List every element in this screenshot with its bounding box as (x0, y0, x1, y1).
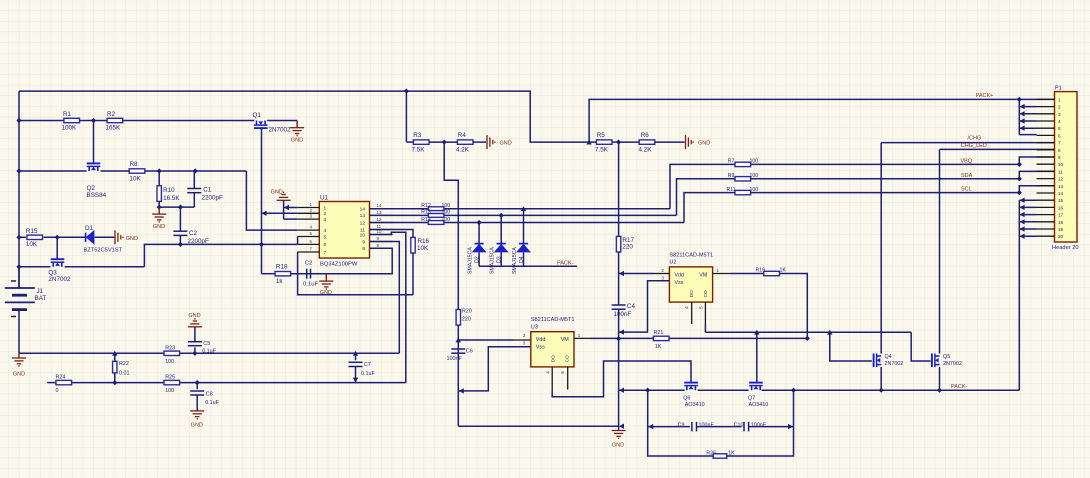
resistor R12 (421, 203, 450, 211)
wire VBQ row (750, 157, 1054, 167)
wire R10 bottom row (157, 205, 195, 210)
svg-text:3: 3 (523, 341, 526, 346)
wire PACK- rail (619, 384, 1020, 393)
svg-text:7: 7 (1058, 141, 1061, 146)
svg-text:CO: CO (565, 355, 570, 362)
svg-text:C9: C9 (678, 422, 685, 428)
svg-text:100K: 100K (62, 124, 78, 131)
svg-text:SMAJ15CA: SMAJ15CA (512, 247, 518, 274)
ground below C8 (190, 411, 204, 429)
svg-text:/CHG: /CHG (968, 136, 982, 142)
resistor R24 (56, 375, 72, 395)
svg-text:R15: R15 (26, 228, 38, 235)
svg-text:R8: R8 (130, 161, 139, 168)
wire U2 Vss return (619, 281, 670, 332)
svg-text:9: 9 (1058, 155, 1061, 160)
ground at R4 (487, 135, 512, 149)
svg-text:GND: GND (13, 372, 25, 378)
svg-text:U1: U1 (320, 194, 329, 201)
svg-text:C4: C4 (627, 303, 636, 310)
wire CHG row (881, 136, 1054, 143)
svg-text:Vss: Vss (674, 280, 683, 286)
transistor Q3 (48, 259, 71, 283)
wire U1 pin9 drop (370, 242, 400, 354)
svg-text:D2: D2 (475, 256, 481, 263)
resistor R22 (113, 353, 130, 382)
svg-text:220: 220 (462, 316, 471, 322)
svg-text:R6: R6 (641, 132, 650, 139)
svg-text:4: 4 (545, 371, 550, 374)
ground at R6 (686, 135, 711, 149)
svg-text:Q5: Q5 (943, 354, 950, 360)
svg-text:12: 12 (360, 220, 366, 226)
svg-text:165K: 165K (106, 124, 122, 131)
svg-text:R3: R3 (413, 132, 422, 139)
svg-text:0.1uF: 0.1uF (303, 281, 318, 287)
op-amp U3 S8211CAD-M5T1 (488, 317, 591, 391)
svg-text:6: 6 (1058, 133, 1061, 138)
svg-text:GND: GND (188, 313, 200, 319)
resistor R1 (62, 111, 80, 131)
svg-text:15: 15 (1058, 198, 1064, 203)
resistor R6 (639, 132, 655, 153)
svg-text:C7: C7 (364, 362, 371, 368)
svg-text:Q4: Q4 (885, 354, 892, 360)
resistor R9 (728, 173, 758, 181)
svg-text:0.01: 0.01 (119, 371, 130, 377)
capacitor C10 (697, 422, 794, 432)
resistor R7 (728, 159, 758, 167)
wire BAT+ left vertical (18, 91, 20, 288)
svg-text:12: 12 (377, 217, 382, 222)
svg-text:13: 13 (1058, 184, 1064, 189)
svg-text:0: 0 (56, 388, 59, 394)
svg-text:2: 2 (1058, 105, 1061, 110)
svg-text:Q1: Q1 (253, 112, 262, 119)
svg-text:14: 14 (377, 203, 382, 208)
svg-text:100: 100 (750, 187, 759, 193)
svg-text:2N7002: 2N7002 (48, 276, 71, 283)
op-amp U2 S8211CAD-M5T1 (648, 252, 731, 324)
svg-text:GND: GND (612, 443, 624, 449)
wire Q3 gate (56, 237, 58, 259)
svg-text:R20: R20 (462, 309, 472, 315)
svg-text:R2: R2 (107, 111, 116, 118)
svg-text:SMAJ15CA: SMAJ15CA (468, 247, 474, 274)
svg-text:13: 13 (377, 210, 382, 215)
svg-text:13: 13 (360, 213, 366, 219)
wire U1 pin5 jog (297, 237, 299, 245)
svg-text:R12: R12 (421, 203, 431, 209)
capacitor C3 (291, 260, 327, 287)
wire R3 feed (404, 89, 486, 145)
svg-text:100: 100 (442, 217, 451, 223)
wire U1 pin8 net (291, 248, 393, 273)
svg-text:100: 100 (165, 359, 174, 365)
wire R17 vertical (618, 142, 620, 236)
resistor R14 (421, 217, 450, 225)
svg-text:AO3410: AO3410 (685, 402, 705, 408)
wire Q3 row (16, 242, 297, 270)
transistor Q1 (253, 112, 292, 134)
svg-text:2: 2 (661, 268, 664, 273)
svg-text:14: 14 (360, 207, 366, 213)
svg-text:4: 4 (684, 306, 689, 309)
wire R5 row (589, 140, 684, 145)
svg-text:20: 20 (1058, 234, 1064, 239)
svg-text:BQ34Z100PW: BQ34Z100PW (320, 262, 358, 268)
resistor R2 (106, 111, 123, 131)
svg-text:CHG_LED: CHG_LED (961, 143, 987, 149)
wire PACK+ bus at header (1017, 97, 1037, 135)
wire C6 gnd row (458, 425, 618, 427)
wire R20 bottom (457, 325, 459, 426)
svg-text:Q6: Q6 (683, 395, 690, 401)
wire cell rail top (19, 351, 399, 356)
svg-text:5: 5 (698, 306, 703, 309)
svg-text:10: 10 (1058, 162, 1064, 167)
resistor R26 (706, 451, 735, 459)
svg-text:5: 5 (1058, 126, 1061, 131)
svg-text:5: 5 (324, 234, 327, 240)
svg-text:GND: GND (271, 190, 283, 196)
wire U3 Vss return (458, 347, 531, 394)
wire U1 pin7 drop (298, 252, 413, 295)
resistor R5 (595, 132, 612, 153)
svg-text:BZT52C5V1ST: BZT52C5V1ST (84, 248, 123, 254)
svg-text:7.5K: 7.5K (412, 147, 426, 154)
capacitor C4 (612, 303, 636, 318)
svg-text:18: 18 (1058, 220, 1064, 225)
wire pin12 row (370, 193, 736, 226)
svg-text:5: 5 (560, 371, 565, 374)
svg-text:R22: R22 (119, 361, 129, 367)
wire CHG_LED row (940, 143, 1055, 150)
svg-text:17: 17 (1058, 213, 1064, 218)
resistor R20 (456, 309, 472, 326)
capacitor C5 (188, 327, 217, 355)
svg-text:1k: 1k (276, 278, 284, 285)
svg-text:C10: C10 (734, 422, 744, 428)
resistor R8 (129, 161, 145, 183)
svg-text:R25: R25 (165, 375, 175, 381)
wire U2 Vdd net (619, 252, 654, 305)
svg-text:R23: R23 (165, 345, 175, 351)
battery J1 (5, 267, 47, 354)
capacitor C9 (648, 422, 715, 432)
capacitor C8 (190, 383, 219, 411)
svg-text:C2: C2 (189, 230, 198, 237)
svg-text:PACK-: PACK- (951, 384, 968, 390)
svg-text:D3: D3 (497, 256, 503, 263)
wire PACK- bus at header (1019, 198, 1036, 391)
connector P1 Header 20 (1037, 85, 1079, 251)
svg-text:19: 19 (1058, 227, 1064, 232)
diode D4 (512, 209, 531, 274)
svg-text:9: 9 (362, 239, 365, 245)
svg-text:GND: GND (698, 141, 710, 147)
svg-text:Q7: Q7 (748, 395, 755, 401)
capacitor C2 (173, 207, 209, 245)
svg-text:100nF: 100nF (699, 422, 715, 428)
wire pin13 row (370, 179, 736, 218)
svg-text:VBQ: VBQ (961, 159, 973, 165)
wire R21 right (669, 337, 807, 339)
svg-text:VM: VM (561, 337, 570, 343)
svg-text:10: 10 (360, 232, 366, 238)
svg-text:100: 100 (442, 210, 451, 216)
svg-text:GND: GND (320, 290, 332, 296)
diode D1 (84, 225, 123, 254)
svg-text:1: 1 (1058, 97, 1061, 102)
wire U1 pin11 to R16 (370, 230, 414, 238)
svg-text:100: 100 (750, 173, 759, 179)
svg-text:PACK+: PACK+ (976, 93, 994, 99)
svg-text:GND: GND (291, 138, 303, 144)
wire bottom loop (648, 390, 794, 456)
svg-text:SMAJ15CA: SMAJ15CA (490, 247, 496, 274)
svg-text:16.5K: 16.5K (163, 195, 180, 202)
svg-text:AO3410: AO3410 (749, 402, 769, 408)
wire PACK- diode rail (479, 260, 577, 266)
svg-text:R21: R21 (654, 330, 664, 336)
wire R1 row (16, 118, 297, 123)
transistor Q4 (874, 143, 904, 391)
transistor Q2 (87, 163, 107, 198)
svg-text:R5: R5 (597, 132, 606, 139)
resistor R3 (412, 132, 430, 153)
wire Q2 row (16, 168, 297, 230)
svg-text:C2: C2 (305, 260, 313, 266)
svg-text:1K: 1K (728, 451, 735, 457)
resistor R4 (456, 132, 473, 153)
wire R16 bottom (412, 253, 414, 295)
svg-text:10K: 10K (130, 176, 142, 183)
wire Q2 gate (93, 121, 95, 164)
svg-text:2N7002: 2N7002 (269, 127, 292, 134)
label PACK+ (976, 93, 994, 99)
wire U3 VM row (591, 337, 654, 339)
resistor R10 (157, 171, 180, 207)
svg-text:2N7002: 2N7002 (943, 361, 962, 367)
svg-text:PACK-: PACK- (557, 260, 574, 266)
wire U1 pin2 row (262, 211, 298, 216)
ground at battery (12, 353, 26, 377)
wire header nets (0, 0, 1, 1)
svg-text:4: 4 (1058, 119, 1061, 124)
resistor R16 (411, 237, 430, 253)
resistor R18 (275, 263, 291, 285)
svg-text:100: 100 (750, 159, 759, 165)
svg-text:12: 12 (1058, 177, 1064, 182)
svg-text:CO: CO (703, 290, 708, 297)
svg-text:R10: R10 (163, 187, 175, 194)
resistor R23 (164, 345, 180, 365)
capacitor C6 (447, 348, 473, 362)
wire Q1 gate net (262, 128, 276, 274)
svg-text:R9: R9 (728, 173, 735, 179)
wire SDA row (750, 171, 1054, 181)
svg-text:GND: GND (126, 236, 138, 242)
resistor R15 (26, 228, 43, 248)
svg-text:8: 8 (362, 246, 365, 252)
svg-text:C6: C6 (466, 348, 473, 354)
svg-text:P1: P1 (1055, 85, 1062, 91)
ground at D1 (95, 230, 138, 244)
svg-text:10K: 10K (417, 245, 429, 252)
resistor R19 (756, 268, 787, 276)
svg-text:100: 100 (165, 388, 174, 394)
resistor R13 (421, 210, 450, 218)
svg-text:11: 11 (1058, 169, 1063, 174)
svg-text:220: 220 (622, 244, 633, 251)
wire U3 DO net (552, 361, 691, 397)
svg-text:U3: U3 (531, 324, 538, 330)
svg-text:C8: C8 (206, 392, 213, 398)
wire cell rail bottom (47, 380, 406, 385)
svg-text:1: 1 (716, 268, 719, 273)
svg-text:SCL: SCL (961, 187, 972, 193)
transistor Q7 (748, 383, 768, 408)
svg-text:100nF: 100nF (614, 311, 632, 318)
svg-text:D1: D1 (85, 225, 94, 232)
svg-text:SDA: SDA (961, 173, 973, 179)
wire pin14 row (370, 164, 736, 211)
capacitor C7 (349, 353, 376, 382)
diode D3 (490, 215, 509, 274)
svg-text:100nF: 100nF (447, 356, 463, 362)
svg-text:BSS84: BSS84 (87, 192, 107, 199)
svg-text:GND: GND (153, 224, 165, 230)
svg-text:8: 8 (1058, 148, 1061, 153)
svg-text:U2: U2 (669, 260, 676, 266)
transistor Q6 (683, 383, 704, 408)
op-amp U1 BQ34Z100PW (297, 194, 392, 267)
svg-text:1: 1 (324, 205, 327, 211)
svg-text:2: 2 (324, 211, 327, 217)
wire U1 pin10 drop (370, 232, 406, 382)
svg-text:Vdd: Vdd (536, 337, 546, 343)
svg-text:Header 20: Header 20 (1052, 245, 1079, 251)
svg-text:2200pF: 2200pF (202, 195, 224, 202)
svg-text:4: 4 (324, 228, 327, 234)
svg-text:R26: R26 (706, 451, 716, 457)
svg-text:4.2K: 4.2K (456, 147, 470, 154)
svg-text:BAT: BAT (35, 295, 47, 302)
svg-text:6: 6 (324, 242, 327, 248)
svg-text:0.1uF: 0.1uF (202, 348, 216, 354)
svg-text:10K: 10K (26, 241, 38, 248)
svg-text:S8211CAD-M5T1: S8211CAD-M5T1 (669, 252, 713, 258)
ground at C3 (319, 274, 392, 297)
svg-text:7: 7 (324, 250, 327, 256)
wire PACK+ top rail (19, 91, 1055, 144)
svg-text:3: 3 (324, 217, 327, 223)
svg-text:GND: GND (191, 423, 203, 429)
svg-text:7.5K: 7.5K (595, 147, 609, 154)
resistor R21 (653, 330, 669, 350)
svg-text:R11: R11 (727, 187, 736, 193)
svg-text:C5: C5 (203, 341, 210, 347)
ground below R10 (152, 207, 166, 230)
svg-text:R13: R13 (421, 210, 431, 216)
svg-text:3: 3 (661, 276, 664, 281)
svg-text:14: 14 (1058, 191, 1064, 196)
svg-text:VM: VM (699, 272, 708, 278)
wire R15 row (16, 235, 85, 240)
svg-text:R1: R1 (63, 111, 72, 118)
ground at Q1 source (290, 121, 304, 144)
svg-text:GND: GND (500, 141, 512, 147)
svg-text:R4: R4 (458, 132, 467, 139)
svg-text:100: 100 (442, 203, 451, 209)
svg-text:1K: 1K (655, 344, 662, 350)
ground above C5 (188, 313, 202, 327)
wire GND vertical (616, 309, 624, 430)
svg-text:S8211CAD-M5T1: S8211CAD-M5T1 (531, 317, 575, 323)
svg-text:16: 16 (1058, 205, 1064, 210)
svg-text:2N7002: 2N7002 (885, 361, 904, 367)
transistor Q5 (932, 149, 962, 390)
svg-text:1: 1 (578, 333, 581, 338)
svg-text:2: 2 (523, 333, 526, 338)
wire U2 VM to R19 (730, 273, 764, 275)
svg-text:C1: C1 (203, 187, 212, 194)
wire SCL row (750, 186, 1054, 195)
resistor R17 (616, 236, 634, 252)
wire U2 CO net (705, 324, 930, 382)
svg-text:Vdd: Vdd (674, 272, 684, 278)
diode D2 (468, 223, 487, 275)
svg-text:R7: R7 (728, 159, 735, 165)
ground main (612, 431, 626, 449)
svg-text:DO: DO (550, 355, 555, 362)
wire R19 drop (779, 274, 810, 342)
resistor R11 (727, 187, 759, 195)
ground above U1 (271, 190, 298, 220)
svg-text:D4: D4 (519, 256, 525, 263)
svg-text:0.1uF: 0.1uF (205, 400, 219, 406)
svg-text:4.2K: 4.2K (639, 147, 653, 154)
svg-text:Vss: Vss (536, 345, 545, 351)
resistor R25 (164, 375, 180, 395)
svg-text:DO: DO (689, 290, 694, 297)
svg-text:R14: R14 (421, 217, 431, 223)
svg-text:R19: R19 (756, 268, 766, 274)
wire R3 junction drop (444, 142, 458, 309)
svg-text:R18: R18 (276, 263, 288, 270)
svg-text:0.1uF: 0.1uF (361, 371, 375, 377)
svg-text:100nF: 100nF (751, 422, 767, 428)
capacitor C1 (187, 171, 223, 207)
svg-text:R24: R24 (56, 375, 66, 381)
svg-text:3: 3 (1058, 112, 1061, 117)
wire U3 Vdd row (456, 337, 514, 342)
